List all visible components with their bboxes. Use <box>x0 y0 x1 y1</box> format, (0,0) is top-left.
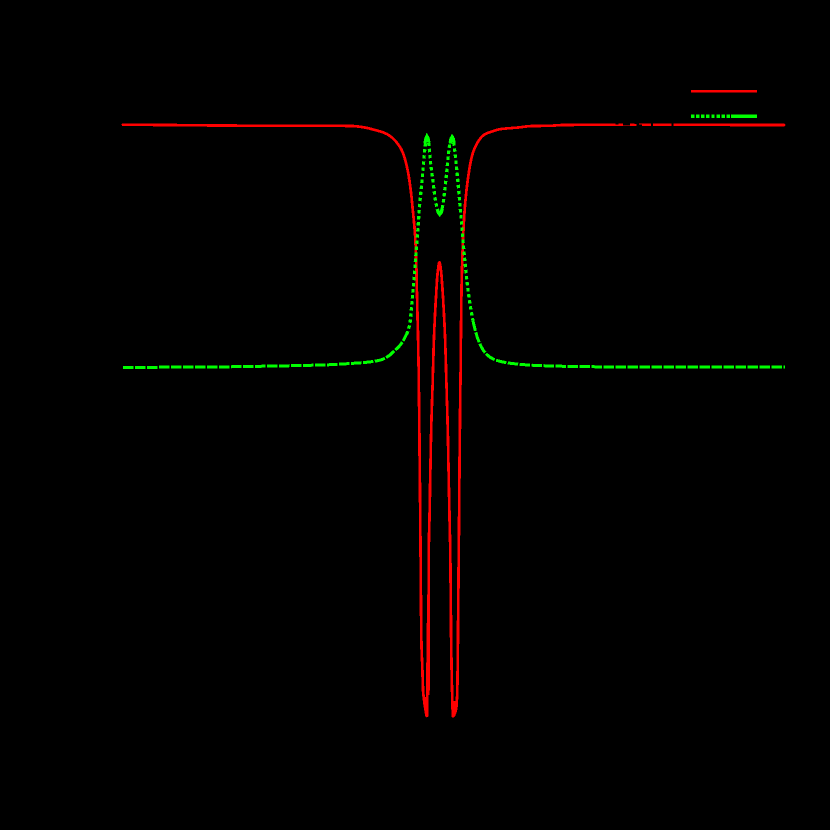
green dashed curve: central double-peak (Autler-Townes doublet) <box>407 136 474 335</box>
red curve: real part / transmission trace with two deep resonance dips <box>123 125 784 717</box>
black (invisible) legend text cutting the red baseline near x=615-673 <box>616 118 674 128</box>
red curve dip tip fills (left resonance) <box>424 697 429 717</box>
green dashed curve: left flat tail <box>123 334 407 367</box>
green dashed curve: right flat tail <box>473 321 785 367</box>
legend red solid line sample <box>691 90 757 93</box>
green curve solid caps at peaks and valley (chunky marker look) <box>425 136 429 143</box>
red curve dip tip fill (right resonance) <box>452 701 457 717</box>
legend green dashed line sample <box>691 115 757 118</box>
